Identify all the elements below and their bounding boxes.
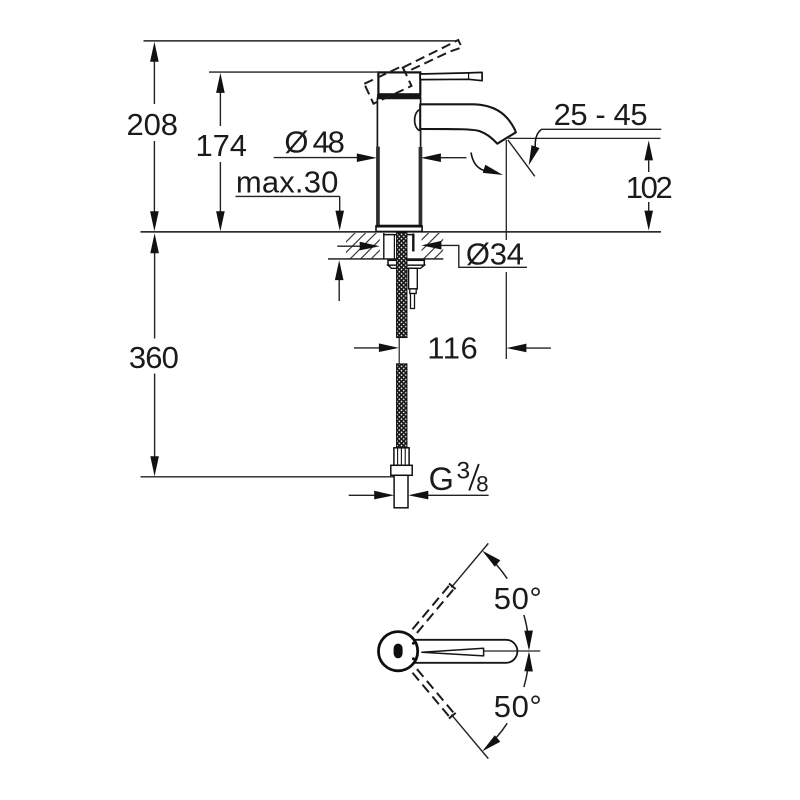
- hose crimp collar: [394, 448, 409, 466]
- 50deg swing upper ray + dashed handle: [411, 541, 491, 634]
- threaded shank / braided hose upper: [397, 233, 407, 338]
- lever (rest position): [420, 72, 482, 80]
- spout outlet level line: [509, 137, 661, 139]
- dim 360 bottom reference line: [141, 476, 395, 478]
- leader arrow to aerator line: [535, 130, 541, 148]
- handle cap: [378, 72, 420, 94]
- joint ring: [377, 94, 421, 98]
- lever slot detail: [422, 648, 484, 656]
- svg-text:174: 174: [196, 128, 248, 163]
- faucet body top view circle: [379, 632, 418, 671]
- spout outlet extension line: [505, 140, 507, 240]
- lower 50deg arc: [524, 654, 529, 687]
- connection tube: [394, 475, 408, 508]
- countertop hatched cross-section: [346, 233, 380, 258]
- spout root arc: [415, 110, 421, 131]
- lever raised position (dashed): [364, 40, 467, 104]
- svg-text:50°: 50°: [494, 581, 542, 616]
- svg-text:8: 8: [476, 472, 489, 497]
- svg-text:Ø34: Ø34: [466, 237, 524, 272]
- centerline: [398, 217, 400, 233]
- dim 360: [154, 253, 156, 339]
- braided hose lower: [397, 364, 407, 448]
- svg-text:G: G: [429, 461, 454, 497]
- dim 174: [219, 93, 221, 127]
- svg-text:25 - 45: 25 - 45: [554, 97, 648, 132]
- countertop top surface line: [141, 231, 662, 233]
- faucet body: [377, 98, 420, 225]
- max.30 arrow below deck: [338, 280, 340, 301]
- lever pin: [394, 644, 403, 659]
- upper 50deg arc: [524, 615, 529, 648]
- svg-text:50°: 50°: [494, 689, 542, 724]
- 50deg swing lower ray + dashed handle: [411, 668, 491, 761]
- hose nut G3/8: [391, 465, 412, 475]
- svg-text:max.30: max.30: [236, 164, 339, 199]
- body side shading left: [376, 147, 380, 226]
- dim 116: [354, 347, 379, 349]
- dim G3/8: [349, 494, 375, 496]
- dim 208 top reference line: [144, 40, 458, 42]
- shank guide through deck hole: [383, 233, 385, 259]
- centerline right of handle: [484, 650, 540, 652]
- dim diameter 48: [274, 157, 358, 159]
- base plate: [376, 227, 422, 232]
- body side shading right: [419, 147, 423, 225]
- dim 174 reference line: [209, 71, 379, 73]
- svg-text:116: 116: [427, 331, 478, 366]
- mounting nut: [388, 260, 424, 265]
- svg-text:208: 208: [126, 107, 178, 142]
- svg-text:3: 3: [456, 458, 470, 485]
- svg-text:360: 360: [129, 340, 179, 375]
- dim 208: [153, 62, 155, 105]
- dim diameter 34: [337, 245, 360, 247]
- countertop bottom line: [328, 258, 443, 260]
- svg-text:102: 102: [626, 170, 673, 205]
- svg-text:Ø 48: Ø 48: [284, 125, 345, 160]
- connection pieces: [409, 268, 418, 289]
- dim 102: [648, 161, 650, 173]
- detail dots: [412, 642, 415, 645]
- handle top view: [414, 640, 517, 663]
- aerator swivel arrow: [471, 153, 485, 171]
- spout: [420, 104, 516, 143]
- aerator axis line: [508, 140, 535, 177]
